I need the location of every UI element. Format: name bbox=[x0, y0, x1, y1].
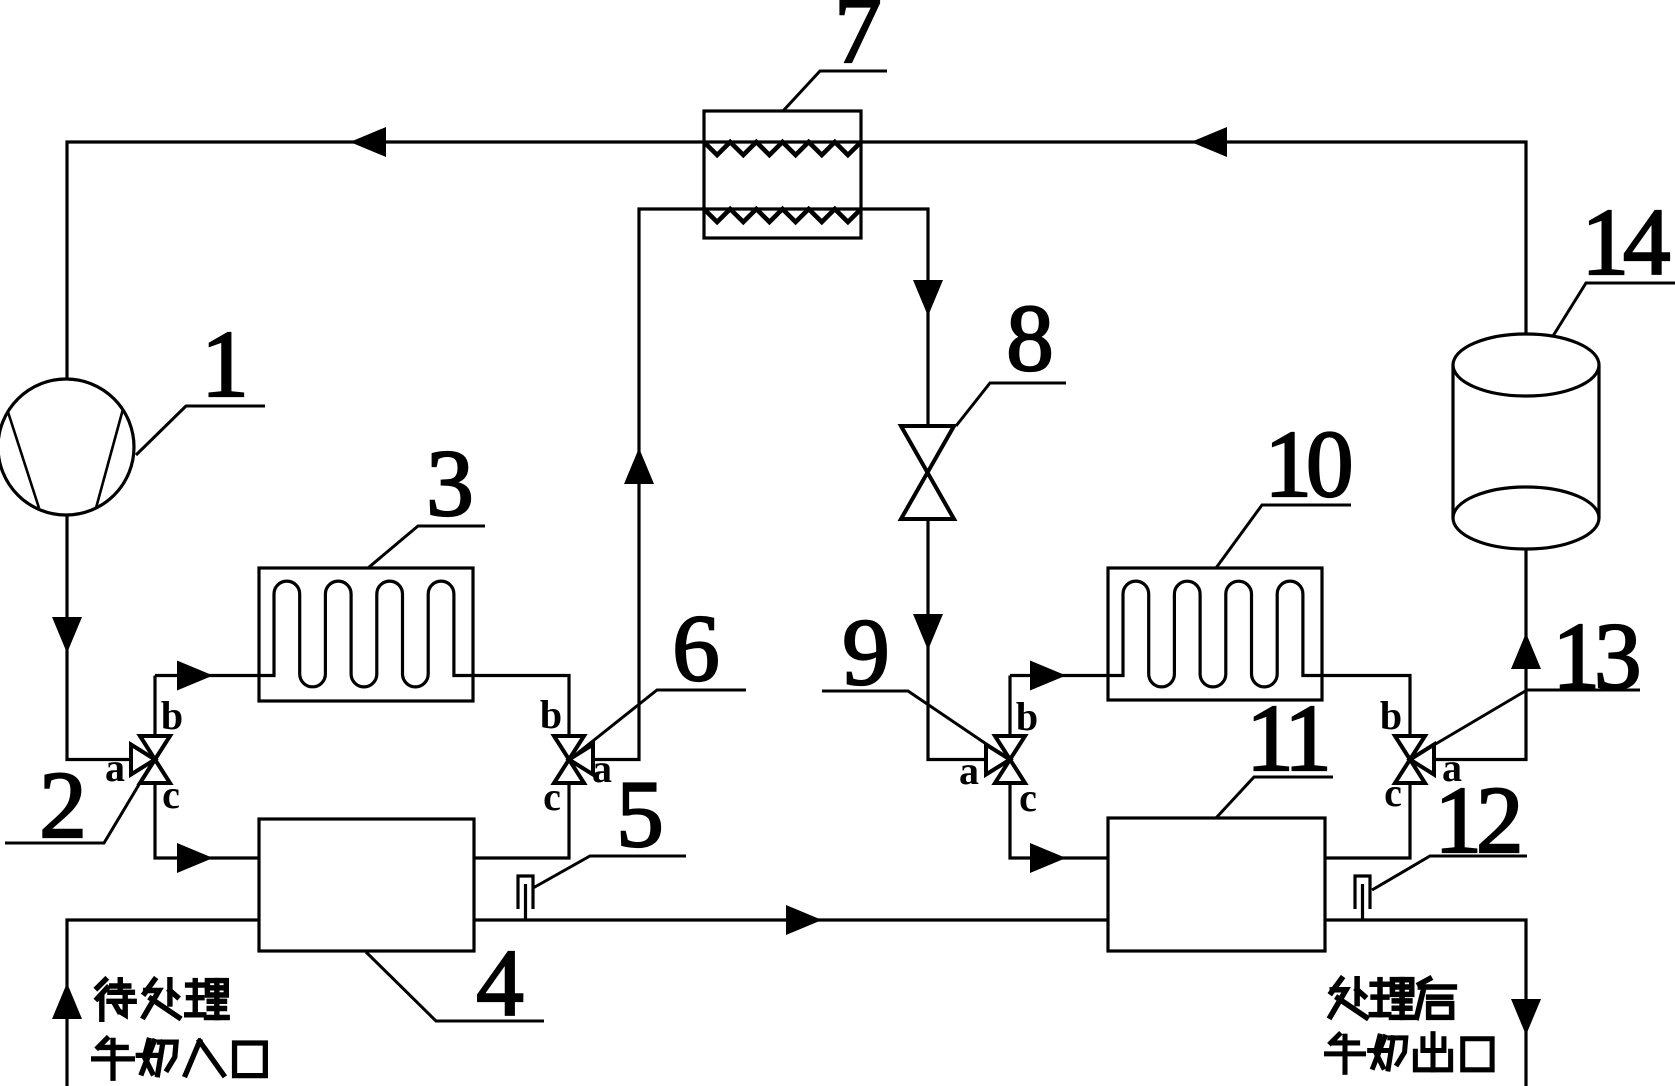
svg-text:13: 13 bbox=[1553, 603, 1639, 709]
svg-text:c: c bbox=[1019, 775, 1037, 820]
svg-text:11: 11 bbox=[1246, 685, 1326, 791]
svg-text:7: 7 bbox=[834, 0, 882, 83]
svg-text:a: a bbox=[105, 745, 125, 790]
svg-text:10: 10 bbox=[1265, 411, 1351, 517]
svg-text:a: a bbox=[592, 746, 612, 791]
svg-text:14: 14 bbox=[1582, 189, 1671, 295]
svg-text:a: a bbox=[959, 748, 979, 793]
svg-text:a: a bbox=[1442, 745, 1462, 790]
svg-text:b: b bbox=[1016, 694, 1038, 739]
svg-text:8: 8 bbox=[1006, 285, 1054, 391]
svg-text:3: 3 bbox=[426, 430, 474, 536]
svg-text:c: c bbox=[1384, 770, 1402, 815]
svg-text:4: 4 bbox=[476, 930, 524, 1036]
svg-text:2: 2 bbox=[39, 752, 87, 858]
svg-text:5: 5 bbox=[616, 761, 664, 867]
svg-text:6: 6 bbox=[672, 595, 720, 701]
svg-text:b: b bbox=[1380, 693, 1402, 738]
svg-text:c: c bbox=[162, 772, 180, 817]
svg-text:c: c bbox=[543, 774, 561, 819]
svg-text:b: b bbox=[161, 693, 183, 738]
svg-text:b: b bbox=[540, 692, 562, 737]
svg-text:9: 9 bbox=[842, 599, 890, 705]
svg-text:1: 1 bbox=[201, 311, 249, 417]
